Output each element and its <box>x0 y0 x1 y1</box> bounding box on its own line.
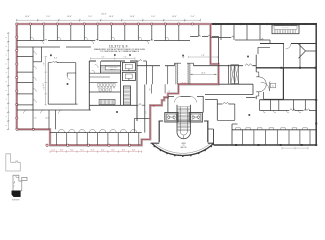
columns on right wing walls <box>235 144 237 146</box>
right wing upper room row <box>260 99 317 101</box>
shaft wall strips with ticks <box>175 63 177 84</box>
toilet stalls and sinks <box>98 83 100 86</box>
door zigzag on red wall <box>181 83 187 85</box>
svg-text:10'-4": 10'-4" <box>80 150 84 152</box>
core walls <box>88 61 90 110</box>
site key plan with leased area solid <box>13 175 27 191</box>
svg-text:10'-4": 10'-4" <box>111 150 115 152</box>
small wall x232 <box>231 124 233 145</box>
dimension row (bottom, red) <box>50 151 142 153</box>
columns on bottom wall <box>46 144 48 146</box>
corridor wall south (y=47) <box>17 46 91 48</box>
free-standing columns <box>50 54 52 56</box>
stair3 label box <box>270 83 275 88</box>
svg-text:10'-4": 10'-4" <box>122 150 126 152</box>
hatched counter / service room <box>100 66 120 74</box>
svg-text:14'-6": 14'-6" <box>109 16 114 18</box>
demised premises boundary (gray wall underlay) <box>17 24 219 145</box>
exterior wall (top, black base) <box>17 23 316 25</box>
corridor wall with arched double door <box>255 55 257 72</box>
svg-text:SITE KEY: SITE KEY <box>12 200 20 202</box>
svg-text:10'-4": 10'-4" <box>51 150 55 152</box>
svg-text:14'-6": 14'-6" <box>130 16 135 18</box>
stair no.2 (top right) <box>272 25 299 34</box>
svg-text:14'-8": 14'-8" <box>54 58 58 60</box>
dimension line above core <box>91 58 136 60</box>
top-right rooms walls <box>211 38 271 41</box>
corridor wall north (y=40.5) <box>17 40 190 42</box>
door zigzags on wall y36.5 <box>198 35 211 37</box>
svg-text:7'-2": 7'-2" <box>124 57 127 59</box>
dimensions in red room <box>191 73 217 75</box>
shaft closets with X braces <box>231 65 235 84</box>
svg-text:9'-0": 9'-0" <box>88 16 92 18</box>
elevators <box>122 63 135 71</box>
corridor wall (y=65.7) <box>137 65 256 67</box>
svg-text:17'-0": 17'-0" <box>33 117 37 119</box>
bottom office band partitions <box>50 132 142 134</box>
svg-text:9'-0": 9'-0" <box>151 16 155 18</box>
core stair <box>124 86 131 105</box>
demised premises boundary (pink band) <box>17 24 219 145</box>
svg-text:16,372 S.F.: 16,372 S.F. <box>109 44 129 48</box>
svg-text:241'-8": 241'-8" <box>101 13 107 15</box>
svg-text:10'-4": 10'-4" <box>91 150 95 152</box>
angled walls near top-right <box>299 44 317 58</box>
rooms above red step (y110-129) <box>17 109 91 111</box>
svg-text:14'-6": 14'-6" <box>67 16 72 18</box>
svg-text:ST: ST <box>272 84 274 86</box>
red door zigzag at corridor <box>153 105 156 107</box>
hatched vestibule at core bottom <box>99 100 115 105</box>
rotunda curved wall <box>152 144 214 156</box>
floor medallion right <box>189 113 202 123</box>
partition x152.5 <box>152 66 154 85</box>
right wing bottom room row <box>232 129 316 131</box>
wall y=120.3 <box>217 119 235 121</box>
corridor wall y=99.4 left part <box>205 99 217 120</box>
svg-text:14'-8": 14'-8" <box>45 117 49 119</box>
exterior wall (bottom of right wing) <box>214 144 317 146</box>
svg-text:10'-4": 10'-4" <box>60 150 64 152</box>
vestibule base stubs <box>151 142 160 144</box>
rotunda right connection <box>208 128 214 130</box>
svg-text:9'-0": 9'-0" <box>102 57 105 59</box>
svg-text:4'-6": 4'-6" <box>43 83 45 86</box>
svg-text:BELOW: BELOW <box>181 147 187 149</box>
svg-text:7'-8": 7'-8" <box>182 57 185 59</box>
wall x218.5 upper <box>218 37 220 65</box>
corridor wall (x146) <box>145 66 147 85</box>
columns above core <box>114 54 116 56</box>
rotunda columns <box>210 146 212 148</box>
columns on top wall (black segment) <box>214 23 216 25</box>
central stair (U shape) <box>177 105 191 139</box>
demised premises boundary (red line) <box>17 24 219 145</box>
svg-text:24'-6": 24'-6" <box>201 72 206 74</box>
partition x167.7 <box>167 66 169 85</box>
dimension line (left rooms) <box>45 57 47 106</box>
step room near x258 <box>258 47 270 54</box>
wall y105.2 with door <box>137 104 145 106</box>
stair no.3 room <box>205 84 253 94</box>
vestibule top wall <box>159 120 209 122</box>
svg-text:10'-4": 10'-4" <box>132 150 136 152</box>
floor medallion left <box>165 113 178 123</box>
upper lobby walls <box>167 97 169 112</box>
rooms above wall y67.8 <box>282 44 284 68</box>
door arc on y43.5 <box>286 44 292 50</box>
key plan outline (building footprint) <box>6 154 20 171</box>
partitions in step rooms <box>151 84 153 93</box>
lobby door arcs <box>175 97 181 103</box>
svg-text:14'-6": 14'-6" <box>172 16 177 18</box>
svg-text:14'-6": 14'-6" <box>25 16 30 18</box>
door zigzag near x246 <box>245 64 252 66</box>
vestibule side walls <box>158 121 160 142</box>
svg-text:10'-4": 10'-4" <box>101 150 105 152</box>
svg-text:7'-8": 7'-8" <box>201 55 205 57</box>
svg-text:TO CENTERLINE OF COMMON WALLS: TO CENTERLINE OF COMMON WALLS <box>100 50 140 53</box>
left wing inner wall <box>41 47 43 62</box>
columns on left wall <box>16 36 18 38</box>
svg-text:9'-0": 9'-0" <box>44 62 46 65</box>
wall x234.8 <box>234 104 236 120</box>
free column x117 <box>116 111 118 113</box>
dimension line (top) <box>17 19 201 21</box>
thick wall x283.4 <box>282 68 284 100</box>
corridor walls mid right wing <box>246 92 283 99</box>
svg-text:9'-0": 9'-0" <box>191 16 195 18</box>
small walls left of rotunda <box>133 119 135 133</box>
top office partitions <box>29 25 31 41</box>
dimension line (left) <box>7 33 9 129</box>
svg-text:7'-0": 7'-0" <box>150 88 152 91</box>
svg-text:STOR. 104: STOR. 104 <box>110 68 116 70</box>
column above shafts <box>182 55 184 57</box>
wall y=104 with door <box>217 103 235 105</box>
wall above escalator strips <box>175 62 194 64</box>
svg-text:10'-4": 10'-4" <box>70 150 74 152</box>
rotunda inner arc <box>155 144 210 154</box>
svg-text:9'-0": 9'-0" <box>46 16 50 18</box>
left wing rooms (x17-33) <box>32 47 34 110</box>
stair3 door arc <box>261 82 270 91</box>
columns on top wall (red segment) <box>16 23 18 25</box>
wall with door openings (x190-218) <box>190 36 219 38</box>
svg-text:OPEN: OPEN <box>181 143 185 145</box>
wall y=43.5 right <box>260 43 316 45</box>
exterior wall (right) <box>315 23 317 145</box>
wall y=67.8 with columns <box>256 67 316 69</box>
large room left-center <box>48 62 76 64</box>
small dimension under right wing <box>281 147 283 150</box>
